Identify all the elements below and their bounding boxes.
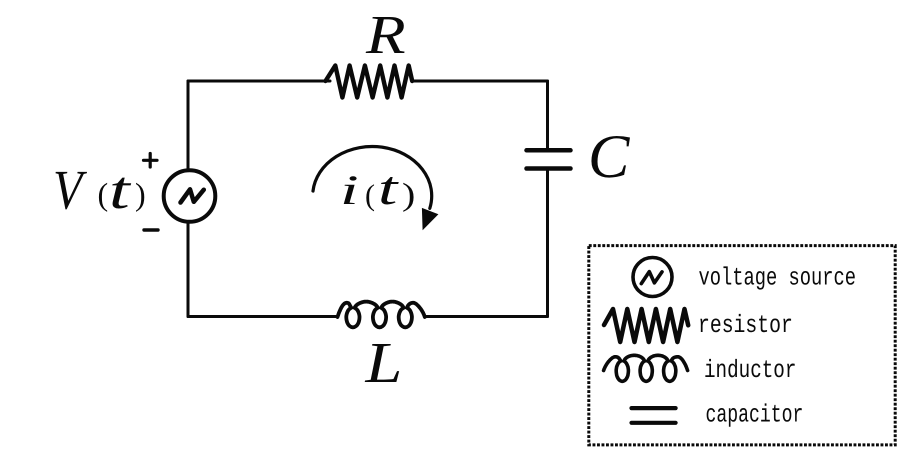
svg-text:): ) — [402, 176, 415, 212]
voltage source V circle — [164, 170, 216, 222]
svg-text:(: ( — [98, 176, 109, 212]
wire top right segment — [412, 80, 547, 83]
wire left upper segment — [187, 81, 190, 170]
legend text resistor — [698, 311, 793, 340]
wire right upper segment — [546, 81, 549, 148]
svg-text:t: t — [109, 160, 132, 220]
svg-text:i: i — [340, 168, 359, 214]
svg-text:capacitor: capacitor — [706, 400, 804, 429]
legend capacitor symbol — [632, 408, 676, 423]
svg-text:L: L — [364, 330, 402, 395]
svg-text:(: ( — [365, 179, 375, 212]
label L — [364, 330, 402, 395]
wire left lower segment — [187, 222, 190, 317]
legend text voltage source — [699, 264, 857, 293]
wire right lower segment — [546, 171, 549, 317]
inductor L — [338, 302, 425, 328]
legend text capacitor — [706, 400, 804, 429]
current arrow head — [422, 208, 439, 230]
label R — [365, 4, 406, 65]
resistor R — [326, 66, 413, 98]
label V(t) — [53, 160, 87, 222]
svg-text:): ) — [135, 176, 146, 212]
wire bottom left segment — [188, 315, 338, 318]
legend box — [589, 246, 895, 445]
plus sign — [144, 154, 158, 168]
svg-text:t: t — [378, 162, 400, 215]
legend resistor symbol — [604, 309, 688, 342]
legend voltage source circle — [633, 258, 672, 297]
wire top left segment — [188, 80, 330, 83]
wire bottom right segment — [425, 315, 548, 318]
svg-text:C: C — [588, 123, 630, 191]
legend voltage source sine symbol — [641, 272, 662, 284]
svg-text:V: V — [53, 160, 87, 222]
svg-text:voltage source: voltage source — [699, 264, 857, 293]
legend inductor symbol — [604, 355, 688, 381]
capacitor C plates — [527, 150, 571, 168]
label C — [588, 123, 630, 191]
svg-text:resistor: resistor — [698, 311, 793, 340]
minus sign — [144, 228, 158, 231]
legend text inductor — [704, 356, 796, 385]
current arrow i(t) arc — [313, 146, 432, 208]
label i(t) — [340, 168, 359, 214]
voltage source sine symbol — [181, 189, 204, 202]
svg-text:R: R — [365, 4, 406, 65]
svg-text:inductor: inductor — [704, 356, 796, 385]
